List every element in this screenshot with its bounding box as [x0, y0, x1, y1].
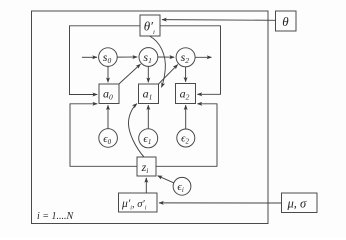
- svg-text:μ′i, σ′i: μ′i, σ′i: [121, 198, 147, 212]
- svg-text:θ: θ: [282, 14, 289, 29]
- svg-text:μ, σ: μ, σ: [287, 196, 308, 210]
- svg-text:i = 1....N: i = 1....N: [37, 211, 75, 222]
